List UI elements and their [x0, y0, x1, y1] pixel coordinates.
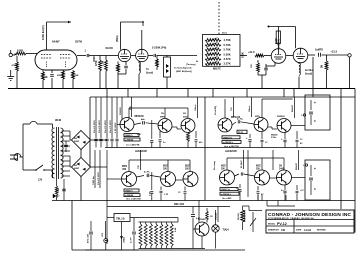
svg-text:3u FP: 3u FP	[131, 237, 133, 243]
svg-text:(+250V): (+250V)	[278, 39, 281, 48]
svg-text:5A: 5A	[74, 137, 77, 140]
svg-text:600P: 600P	[74, 168, 80, 170]
svg-text:2733 MERRILEE DR · FAIRFAX, VA: 2733 MERRILEE DR · FAIRFAX, VA 22031-44	[268, 217, 314, 220]
svg-text:+: +	[314, 167, 316, 171]
svg-text:Offset: Offset	[194, 104, 197, 111]
svg-text:3.57K: 3.57K	[224, 57, 231, 61]
svg-text:mJE4148: mJE4148	[125, 139, 133, 142]
svg-text:2N5550: 2N5550	[277, 116, 285, 118]
svg-text:MODEL: MODEL	[268, 223, 276, 225]
svg-text:Cn mJE071B: Cn mJE071B	[126, 145, 140, 147]
svg-text:4.76K: 4.76K	[224, 38, 231, 42]
svg-text:44u: 44u	[141, 118, 145, 121]
svg-text:(58m): (58m)	[116, 35, 119, 42]
svg-text:2N: 2N	[279, 166, 282, 168]
svg-text:6AU8: 6AU8	[106, 46, 114, 50]
svg-text:+1C: +1C	[300, 190, 304, 192]
svg-text:MJE: MJE	[163, 166, 168, 168]
svg-text:(km): (km)	[222, 33, 227, 35]
svg-text:2N: 2N	[161, 113, 164, 115]
svg-text:IN4647: IN4647	[271, 134, 279, 137]
svg-text:MPS: MPS	[122, 166, 127, 168]
svg-text:PV-12: PV-12	[277, 222, 287, 226]
svg-text:257K: 257K	[75, 40, 83, 44]
svg-text:20u FP 600V: 20u FP 600V	[94, 120, 96, 133]
svg-text:470u 35V: 470u 35V	[87, 233, 90, 243]
svg-text:5.76K: 5.76K	[224, 43, 231, 47]
svg-text:120: 120	[38, 179, 43, 182]
svg-text:4u Pg: 4u Pg	[237, 118, 243, 121]
svg-text:MJE: MJE	[185, 166, 190, 168]
svg-text:1K: 1K	[45, 76, 48, 79]
svg-text:1M: 1M	[322, 65, 324, 68]
svg-text:600P: 600P	[74, 141, 80, 143]
svg-text:DRAWN BY: DRAWN BY	[268, 229, 280, 232]
svg-text:IN4647: IN4647	[291, 104, 294, 112]
svg-text:1N4148: 1N4148	[215, 212, 218, 220]
svg-text:To Switch(panel): To Switch(panel)	[174, 67, 192, 70]
svg-text:5A: 5A	[74, 164, 77, 167]
svg-text:MJE: MJE	[221, 166, 226, 168]
svg-text:2.0M: 2.0M	[103, 61, 105, 66]
svg-text:375K: 375K	[96, 60, 98, 66]
svg-text:T(A)4: T(A)4	[223, 229, 230, 232]
svg-text:20u FP 600V: 20u FP 600V	[98, 172, 100, 185]
svg-text:LM431: LM431	[123, 236, 126, 243]
svg-text:100K: 100K	[242, 52, 245, 58]
svg-text:82K: 82K	[137, 134, 141, 136]
svg-text:RELAY: RELAY	[237, 213, 240, 220]
svg-text:20u FP 660V: 20u FP 660V	[99, 120, 101, 133]
svg-text:MPS: MPS	[160, 117, 165, 119]
svg-text:1N4007 th: 1N4007 th	[223, 136, 233, 139]
svg-text:4u PL: 4u PL	[144, 171, 151, 174]
svg-text:10K: 10K	[75, 75, 79, 77]
svg-text:470K: 470K	[12, 64, 18, 67]
svg-text:+21.5: +21.5	[331, 50, 338, 54]
svg-text:2N: 2N	[183, 113, 186, 115]
svg-text:C: C	[314, 119, 316, 123]
svg-text:1K: 1K	[210, 216, 213, 218]
svg-text:100K Ext(C): 100K Ext(C)	[41, 25, 45, 40]
svg-text:PL25: PL25	[238, 132, 244, 134]
svg-text:5.76K: 5.76K	[224, 48, 231, 52]
svg-text:mJE4148 b: mJE4148 b	[223, 141, 234, 144]
svg-text:750K: 750K	[58, 187, 60, 193]
svg-text:(MST AV(Gain)): (MST AV(Gain))	[176, 70, 192, 73]
svg-text:9042: 9042	[55, 118, 62, 122]
svg-text:5/16u: 5/16u	[271, 137, 277, 139]
svg-text:78L15: 78L15	[116, 216, 125, 220]
svg-text:MPS: MPS	[255, 116, 260, 118]
svg-text:1.2F: 1.2F	[164, 194, 169, 196]
svg-text:MPSU60: MPSU60	[135, 116, 145, 118]
svg-text:REVISED: REVISED	[317, 230, 326, 232]
svg-text:U60: U60	[122, 169, 127, 171]
svg-text:(local): (local)	[305, 72, 312, 75]
svg-text:5 FP 600V: 5 FP 600V	[115, 122, 117, 133]
svg-text:1N4007 th: 1N4007 th	[221, 188, 231, 191]
svg-text:5.36K: 5.36K	[224, 52, 231, 56]
svg-text:5 FP: 5 FP	[150, 191, 152, 196]
svg-text:24 uFMQ: 24 uFMQ	[214, 105, 217, 115]
svg-text:4-9-92: 4-9-92	[304, 229, 312, 232]
svg-text:IN 4647: IN 4647	[240, 160, 243, 168]
svg-text:mJE5204B: mJE5204B	[225, 150, 237, 153]
svg-text:100K 6w: 100K 6w	[93, 176, 95, 185]
svg-text:- 31V: - 31V	[102, 232, 104, 238]
svg-text:3.57K: 3.57K	[224, 62, 231, 66]
svg-text:+31.6: +31.6	[248, 50, 255, 54]
svg-text:6.8K: 6.8K	[175, 227, 177, 232]
svg-text:MJE: MJE	[256, 166, 261, 168]
svg-text:thru mJE071B: thru mJE071B	[126, 197, 141, 200]
svg-text:2N5560: 2N5560	[120, 107, 122, 115]
svg-text:1N4007 t: 1N4007 t	[125, 190, 133, 193]
svg-text:mJE4148 b: mJE4148 b	[221, 193, 232, 196]
svg-text:+: +	[314, 101, 316, 105]
svg-text:mJE5204B: mJE5204B	[135, 150, 147, 153]
svg-text:2uMFD: 2uMFD	[315, 49, 323, 52]
svg-text:1N4007 t: 1N4007 t	[125, 134, 133, 137]
svg-text:Un mJE5: Un mJE5	[222, 198, 232, 200]
svg-text:IN4647: IN4647	[295, 162, 298, 170]
svg-text:De uring: De uring	[214, 160, 216, 170]
svg-text:Offset: Offset	[248, 105, 251, 112]
svg-text:MB.FC: MB.FC	[213, 68, 221, 71]
svg-text:20u FP 600V: 20u FP 600V	[110, 120, 112, 133]
svg-text:mJE4148: mJE4148	[125, 194, 133, 197]
svg-text:(local): (local)	[146, 71, 153, 74]
svg-text:thru mJE071B: thru mJE071B	[224, 145, 239, 148]
svg-text:DATE: DATE	[296, 229, 302, 232]
svg-text:100K: 100K	[17, 49, 23, 53]
svg-text:2-220K (Ph): 2-220K (Ph)	[152, 46, 166, 50]
svg-text:REF ADJ: REF ADJ	[174, 203, 185, 206]
svg-text:6AN7: 6AN7	[52, 40, 60, 44]
svg-text:(Turning): (Turning)	[186, 64, 196, 66]
svg-text:C: C	[314, 187, 316, 191]
svg-text:20u FP 600V: 20u FP 600V	[105, 120, 107, 133]
